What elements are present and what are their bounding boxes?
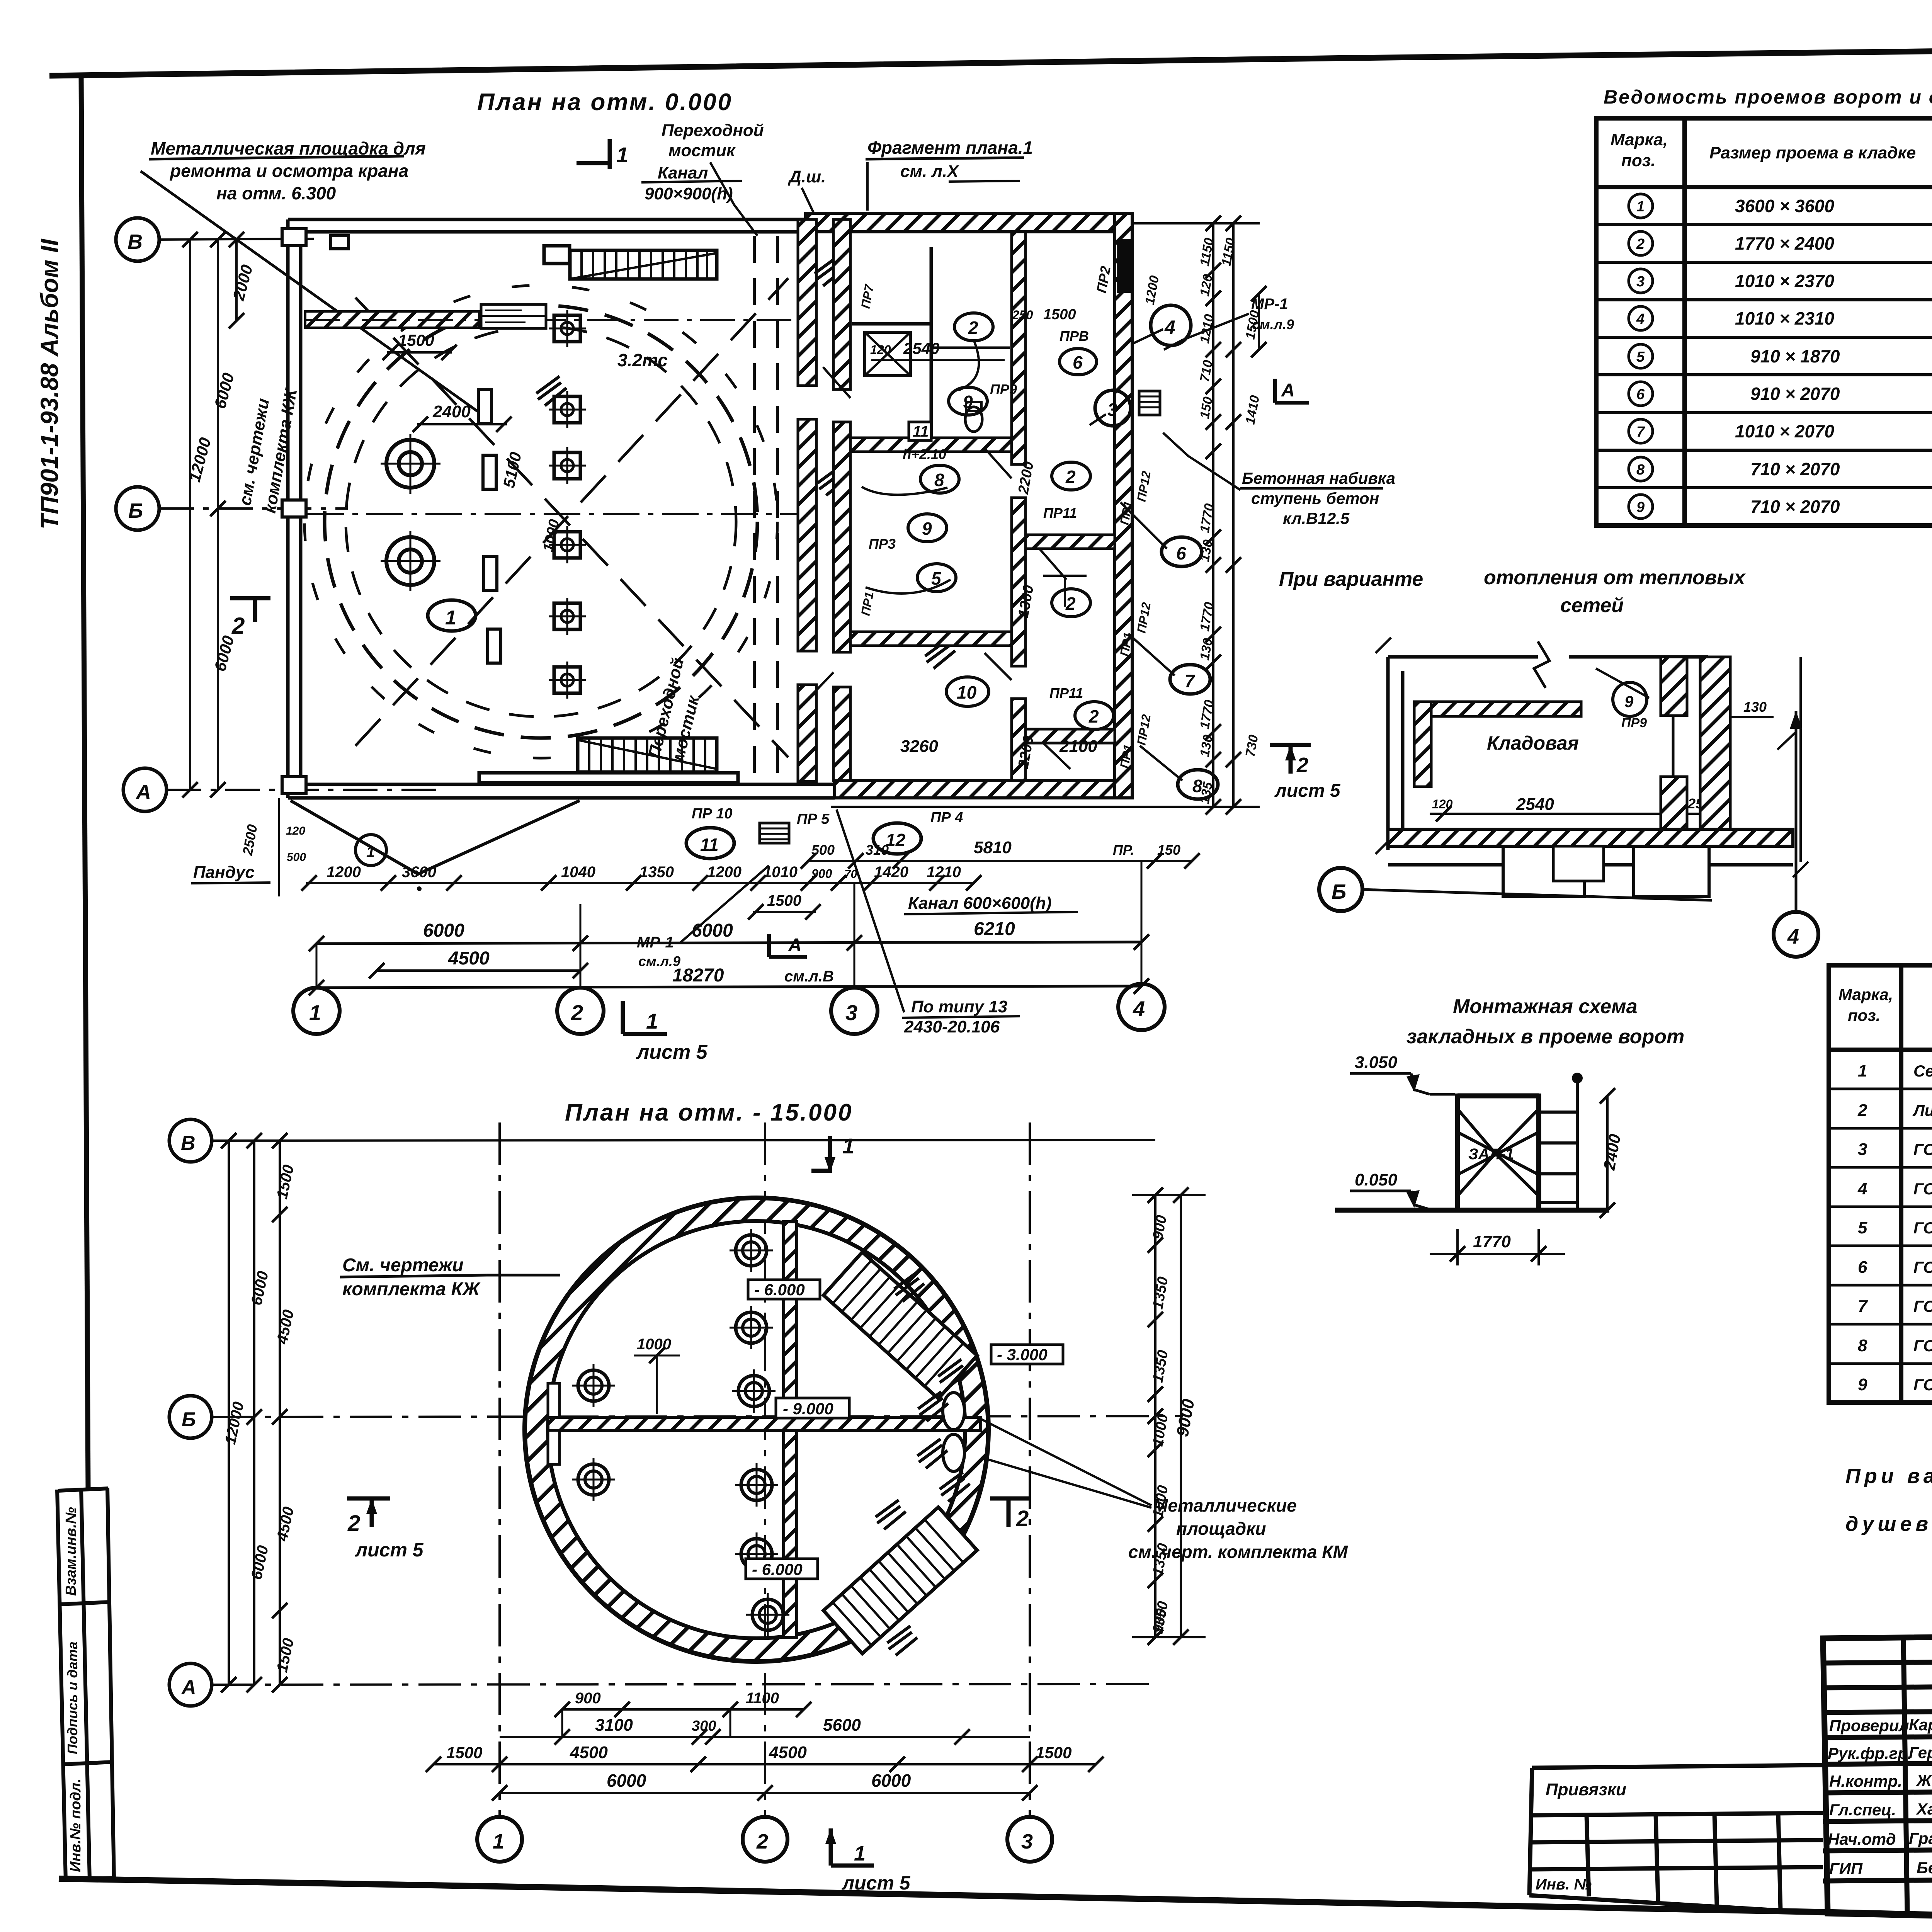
svg-text:1010 × 2310: 1010 × 2310 [1735, 308, 1835, 328]
svg-text:1: 1 [616, 143, 628, 167]
svg-text:1: 1 [445, 607, 456, 629]
svg-text:Инв.№ подл.: Инв.№ подл. [68, 1779, 84, 1872]
sheet outer top border [49, 43, 1932, 76]
svg-text:0.050: 0.050 [1355, 1170, 1398, 1189]
dim row 500 310 5810 150 [808, 860, 1192, 862]
svg-text:120: 120 [870, 343, 891, 357]
room tag oval 1 [428, 600, 476, 631]
left dimension ladder of top plan [190, 240, 236, 790]
detail inner L partition [1414, 702, 1581, 716]
leader curves to tags [862, 329, 1182, 781]
outer contour of main stamp [1823, 1630, 1932, 1931]
svg-text:Пандус: Пандус [193, 863, 255, 882]
svg-text:910 × 2070: 910 × 2070 [1750, 384, 1840, 404]
svg-text:ПР11: ПР11 [1043, 505, 1077, 521]
svg-text:- 9.000: - 9.000 [783, 1400, 833, 1418]
svg-text:150: 150 [1157, 842, 1180, 858]
svg-text:2: 2 [1857, 1101, 1867, 1120]
svg-text:Инв. №: Инв. № [1536, 1876, 1592, 1893]
svg-text:1210: 1210 [927, 864, 961, 881]
svg-text:Подпись и дата: Подпись и дата [65, 1641, 80, 1754]
svg-text:1: 1 [1858, 1061, 1867, 1080]
detail break marks right [1777, 733, 1808, 877]
svg-text:Беляев: Беляев [1917, 1859, 1932, 1877]
svg-text:Переходной: Переходной [662, 121, 764, 140]
svg-text:1010 × 2370: 1010 × 2370 [1735, 271, 1835, 291]
svg-text:130: 130 [1743, 699, 1767, 715]
svg-text:ЗАЛ-1: ЗАЛ-1 [1468, 1146, 1514, 1163]
section mark 1 list5 bottom [831, 1828, 874, 1866]
svg-text:300: 300 [692, 1718, 716, 1734]
svg-text:МР-1: МР-1 [1251, 296, 1288, 313]
svg-text:ГОСТ 6629-74*: ГОСТ 6629-74* [1913, 1297, 1932, 1315]
svg-text:См. чертежи: См. чертежи [342, 1255, 464, 1276]
svg-text:6000: 6000 [423, 920, 464, 941]
crane rail band top-left [305, 311, 479, 328]
svg-text:1420: 1420 [874, 864, 908, 881]
vertical main dividers [1903, 1638, 1907, 1913]
svg-text:5: 5 [1858, 1218, 1867, 1237]
svg-text:1770 × 2400: 1770 × 2400 [1735, 233, 1835, 253]
svg-text:ГОСТ 6629-74*: ГОСТ 6629-74* [1913, 1180, 1932, 1198]
svg-text:10: 10 [957, 682, 977, 702]
svg-text:см. черт. комплекта КМ: см. черт. комплекта КМ [1128, 1542, 1349, 1562]
svg-text:2: 2 [1065, 467, 1076, 487]
svg-text:2: 2 [756, 1830, 768, 1853]
svg-text:1500: 1500 [446, 1743, 482, 1762]
svg-text:закладных в проеме ворот: закладных в проеме ворот [1406, 1026, 1684, 1048]
axis tag B detail [1319, 868, 1362, 911]
svg-text:4500: 4500 [448, 948, 490, 969]
room tag ovals [908, 313, 1114, 730]
wells column [730, 1229, 773, 1272]
sheet bottom border [59, 1879, 1932, 1932]
svg-text:1200: 1200 [327, 864, 361, 881]
svg-text:лист 5: лист 5 [842, 1872, 911, 1894]
svg-text:1: 1 [493, 1830, 504, 1853]
axis lines [159, 239, 444, 790]
svg-text:2: 2 [1088, 706, 1099, 726]
svg-text:При варианте: При варианте [1279, 568, 1423, 590]
svg-text:см.л.9: см.л.9 [1252, 316, 1294, 332]
svg-text:ГОСТ 6629-74*: ГОСТ 6629-74* [1913, 1337, 1932, 1355]
svg-text:9: 9 [963, 392, 973, 412]
svg-text:Металлические: Металлические [1153, 1495, 1297, 1515]
lower stair flight [823, 1507, 977, 1653]
gate frame [1335, 1094, 1609, 1210]
svg-text:70: 70 [844, 868, 857, 881]
svg-text:250: 250 [1012, 308, 1033, 322]
building outer walls [288, 219, 835, 798]
svg-text:3: 3 [1858, 1140, 1867, 1159]
grate under wall [760, 823, 789, 843]
right vertical dim ladders [831, 222, 1260, 808]
svg-text:3: 3 [1021, 1830, 1033, 1853]
hatched right wall [1115, 213, 1132, 798]
svg-text:мостик: мостик [668, 141, 736, 160]
svg-text:1: 1 [366, 844, 375, 861]
svg-text:120: 120 [286, 825, 305, 837]
left stamp strip [57, 1488, 114, 1881]
upper stair flight [823, 1252, 977, 1398]
svg-text:Н.контр.: Н.контр. [1829, 1772, 1902, 1790]
svg-text:В: В [128, 230, 143, 253]
svg-text:7: 7 [1636, 424, 1645, 440]
svg-text:ГОСТ 6629-74*: ГОСТ 6629-74* [1913, 1258, 1932, 1276]
svg-text:1: 1 [646, 1009, 658, 1033]
svg-text:ПР9: ПР9 [990, 381, 1017, 397]
svg-text:поз.: поз. [1848, 1006, 1880, 1024]
svg-text:2: 2 [1016, 1506, 1029, 1531]
svg-text:ГОСТ 14624-84: ГОСТ 14624-84 [1913, 1219, 1932, 1237]
elevation boxes [746, 1280, 1063, 1579]
svg-text:2540: 2540 [1516, 795, 1554, 814]
hatch bursts [815, 257, 845, 286]
svg-text:1000: 1000 [637, 1336, 671, 1353]
big wells [386, 440, 434, 585]
svg-text:на отм. 6.300: на отм. 6.300 [216, 183, 336, 203]
svg-text:2100: 2100 [1059, 737, 1097, 756]
svg-text:2400: 2400 [432, 402, 471, 421]
svg-text:А: А [1281, 380, 1295, 401]
corridor hatched wall [798, 219, 816, 386]
svg-text:3: 3 [1636, 274, 1645, 290]
left wall stubs [548, 1383, 560, 1417]
svg-text:3.050: 3.050 [1355, 1053, 1398, 1072]
svg-text:8: 8 [1636, 462, 1645, 478]
svg-text:лист 5: лист 5 [355, 1539, 424, 1561]
axes lines bottom plan [212, 1122, 1183, 1816]
tag ovals 11 12 [686, 828, 734, 859]
gate side ladder [1539, 1078, 1577, 1210]
svg-text:А: А [181, 1676, 196, 1699]
section mark 2 right [990, 1498, 1030, 1527]
grid circle B [116, 487, 159, 530]
right dim ladder bottom plan [1132, 1194, 1206, 1638]
small grid rows top-left [1823, 1661, 1932, 1663]
svg-text:1010 × 2070: 1010 × 2070 [1735, 421, 1835, 441]
svg-text:2: 2 [1636, 236, 1645, 252]
svg-text:2540: 2540 [903, 339, 939, 357]
svg-text:лист 5: лист 5 [1274, 781, 1341, 801]
svg-text:Канал: Канал [658, 163, 708, 182]
svg-text:1770: 1770 [1473, 1232, 1511, 1251]
svg-text:6: 6 [1073, 352, 1083, 372]
svg-text:Размер проема в кладке: Размер проема в кладке [1709, 143, 1916, 162]
crane diagonals dashed [355, 278, 788, 746]
svg-text:Марка,: Марка, [1838, 985, 1893, 1003]
svg-text:Ведомость проемов ворот и: Ведомость проемов ворот и дверей [1604, 86, 1932, 108]
grid circle A [123, 768, 167, 811]
svg-text:4500: 4500 [769, 1743, 807, 1762]
vent grille right wall [1139, 391, 1160, 415]
dim 1000 inside [656, 1354, 658, 1414]
svg-text:3: 3 [845, 1000, 857, 1025]
svg-text:8: 8 [934, 470, 944, 490]
svg-text:6210: 6210 [974, 919, 1015, 939]
section mark 1 below title [811, 1136, 830, 1173]
label: perekhodnoy mostik [645, 121, 764, 203]
grid circles bottom of top plan [293, 988, 340, 1034]
svg-text:А: А [135, 781, 151, 804]
dim 2400 inside hall [417, 423, 507, 425]
svg-text:ПР3: ПР3 [869, 536, 896, 552]
svg-text:3600: 3600 [402, 864, 436, 881]
svg-text:6: 6 [1176, 543, 1186, 563]
svg-text:ПР 4: ПР 4 [930, 810, 963, 826]
small dim row under building [306, 882, 974, 884]
svg-text:ПР.: ПР. [1113, 842, 1134, 858]
svg-text:Проверил: Проверил [1829, 1716, 1909, 1735]
section mark 1 (top) [577, 139, 610, 169]
leader text: metal platform [151, 138, 426, 203]
svg-text:2430-20.106: 2430-20.106 [904, 1017, 1000, 1036]
svg-text:- 6.000: - 6.000 [752, 1560, 803, 1578]
ramp V lines [291, 801, 580, 874]
svg-text:6000: 6000 [692, 920, 733, 941]
dims in rooms [871, 359, 1005, 361]
svg-text:1100: 1100 [746, 1690, 779, 1707]
svg-text:2: 2 [968, 318, 978, 338]
svg-text:1500: 1500 [767, 892, 801, 909]
svg-text:3100: 3100 [595, 1716, 633, 1735]
svg-text:5: 5 [1636, 349, 1645, 365]
svg-text:710 × 2070: 710 × 2070 [1750, 497, 1840, 517]
svg-text:3260: 3260 [900, 737, 938, 756]
wall pilasters [282, 229, 349, 794]
svg-text:ступень бетон: ступень бетон [1251, 489, 1379, 507]
svg-text:910 × 1870: 910 × 1870 [1750, 346, 1840, 366]
leader line to platform [141, 171, 478, 412]
svg-text:4: 4 [1164, 316, 1175, 338]
vertical partition of rooms [1012, 232, 1026, 464]
big ring wall of shaft [525, 1198, 988, 1662]
bottom dims of lower plan [562, 1708, 804, 1711]
svg-text:Гл.спец.: Гл.спец. [1829, 1801, 1896, 1819]
svg-text:ремонта и осмотра крана: ремонта и осмотра крана [169, 161, 408, 181]
sheet left border [81, 76, 88, 1488]
svg-text:6: 6 [1858, 1258, 1867, 1277]
svg-text:ГОСТ 6629-74*: ГОСТ 6629-74* [1913, 1376, 1932, 1394]
svg-text:комплекта КЖ: комплекта КЖ [342, 1279, 481, 1299]
svg-text:поз.: поз. [1621, 151, 1655, 170]
grid circle V [116, 218, 159, 261]
section flag 1A [1275, 379, 1309, 403]
svg-text:Германов: Германов [1909, 1743, 1932, 1762]
svg-text:Рук.фр.гр.: Рук.фр.гр. [1828, 1744, 1912, 1762]
svg-text:Взам.инв.№: Взам.инв.№ [63, 1507, 79, 1596]
detail bottom wall [1388, 829, 1793, 846]
svg-text:2: 2 [1296, 753, 1308, 777]
svg-text:1: 1 [842, 1134, 854, 1158]
svg-text:При варианте отопления от: При варианте отопления от тепловых сетей… [1845, 1464, 1932, 1488]
svg-text:см.л.В: см.л.В [784, 968, 834, 985]
right rooms: corridor east wall [833, 219, 850, 389]
door swing diagonals [808, 367, 1070, 769]
svg-text:ГОСТ 24698-81: ГОСТ 24698-81 [1913, 1140, 1932, 1158]
svg-text:кл.В12.5: кл.В12.5 [1283, 509, 1350, 527]
svg-text:1: 1 [854, 1842, 866, 1865]
gate dim 2400 [1606, 1096, 1609, 1210]
corridor dashed lines [753, 236, 756, 779]
detail lower piers [1503, 846, 1584, 896]
svg-text:18270: 18270 [672, 965, 724, 986]
signature labels [1828, 1716, 1932, 1878]
small equipment rects [478, 389, 501, 663]
top stair [544, 246, 717, 279]
svg-text:ГИП: ГИП [1829, 1859, 1863, 1878]
svg-text:Градобоинов: Градобоинов [1909, 1829, 1932, 1847]
svg-text:ТП901-1-93.88 Альбом II: ТП901-1-93.88 Альбом II [36, 238, 63, 529]
svg-text:1500: 1500 [1036, 1743, 1071, 1762]
svg-text:ПР 5: ПР 5 [797, 811, 830, 827]
svg-text:500: 500 [287, 851, 306, 864]
svg-text:6000: 6000 [607, 1770, 646, 1791]
svg-text:900: 900 [811, 867, 832, 881]
grid circle V2 [169, 1119, 212, 1162]
detail door tag [1613, 682, 1647, 716]
svg-text:12: 12 [886, 830, 906, 850]
grid circle A2 [169, 1663, 212, 1706]
svg-text:8: 8 [1858, 1336, 1867, 1355]
svg-text:ПР11: ПР11 [1049, 685, 1083, 701]
gate dim 1770 [1456, 1229, 1459, 1265]
svg-text:900: 900 [575, 1690, 601, 1707]
svg-text:ПР9: ПР9 [1621, 716, 1647, 730]
svg-text:9: 9 [922, 519, 932, 539]
svg-text:Фрагмент плана.1: Фрагмент плана.1 [867, 138, 1033, 158]
svg-text:Бетонная набивка: Бетонная набивка [1242, 469, 1395, 487]
svg-text:1: 1 [1636, 199, 1645, 215]
svg-text:900×900(h): 900×900(h) [645, 184, 733, 203]
left dim ladder bottom plan [229, 1141, 280, 1685]
signature rows [1823, 1735, 1932, 1738]
svg-text:площадки: площадки [1176, 1519, 1266, 1539]
svg-text:2: 2 [231, 613, 245, 639]
grid circle B2 [169, 1396, 212, 1438]
svg-text:см. л.Х: см. л.Х [900, 162, 959, 181]
hatched bottom wall right part [835, 781, 1115, 798]
svg-text:3.2тс: 3.2тс [617, 350, 668, 370]
svg-text:лист 5: лист 5 [636, 1041, 708, 1063]
dim row 18270 [316, 986, 1141, 988]
privyazki block left of stamp [1529, 1765, 1828, 1913]
vertical wall [784, 1222, 797, 1417]
svg-text:4: 4 [1636, 311, 1645, 327]
bottom stair [479, 738, 738, 783]
svg-text:Марка,: Марка, [1611, 130, 1668, 149]
svg-text:1040: 1040 [561, 864, 595, 881]
svg-text:Д.ш.: Д.ш. [787, 167, 826, 186]
circled tags right side [1151, 305, 1191, 345]
svg-text:Б: Б [182, 1408, 196, 1431]
svg-text:отопления от тепловых: отопления от тепловых [1484, 566, 1746, 589]
svg-text:ПР 10: ПР 10 [692, 806, 733, 822]
section mark 2 list5 right of top plan [1270, 745, 1311, 774]
section A mark bottom [769, 934, 807, 957]
section mark 2 list5 left [347, 1498, 390, 1527]
svg-text:7: 7 [1185, 671, 1196, 691]
landing platforms right [943, 1393, 964, 1430]
svg-text:9: 9 [1858, 1375, 1867, 1394]
svg-text:План на отм. 0.000: План на отм. 0.000 [477, 89, 733, 116]
svg-text:душевой устраивается кладова: душевой устраивается кладовая. [1845, 1512, 1932, 1536]
svg-text:Б: Б [1332, 880, 1346, 903]
svg-text:Б: Б [128, 499, 143, 522]
svg-text:Ханин: Ханин [1916, 1800, 1932, 1818]
hatched top wall right part [806, 213, 1132, 232]
boxed tag 11 [909, 422, 931, 440]
svg-text:1200: 1200 [707, 864, 742, 881]
section mark 1 list 5 [623, 1001, 667, 1034]
svg-text:11: 11 [700, 835, 719, 855]
svg-text:500: 500 [811, 842, 835, 858]
hatch bursts in stairs [894, 1272, 924, 1301]
svg-text:1500: 1500 [1043, 306, 1076, 323]
svg-text:4500: 4500 [570, 1743, 608, 1762]
svg-text:1: 1 [309, 1000, 321, 1025]
svg-text:4: 4 [1857, 1179, 1867, 1198]
svg-text:Карельских: Карельских [1909, 1716, 1932, 1734]
shower box with X [865, 332, 910, 376]
door PR2 on right wall [1117, 239, 1131, 293]
main dim row 6000 6000 6210 [316, 942, 1141, 944]
svg-text:План на отм. - 15.000: План на отм. - 15.000 [565, 1099, 853, 1126]
svg-text:3: 3 [1107, 400, 1117, 420]
svg-text:А: А [788, 935, 802, 956]
horizontal wall along B axis [548, 1417, 981, 1430]
svg-text:2: 2 [1065, 594, 1076, 614]
svg-text:Кладовая: Кладовая [1487, 732, 1579, 754]
svg-text:ПРВ: ПРВ [1060, 328, 1089, 344]
svg-text:9: 9 [1636, 499, 1645, 515]
grid circles bottom of lower plan [477, 1817, 522, 1862]
small door labels right column [858, 283, 1153, 770]
wc fixture [965, 407, 982, 432]
svg-text:Жило: Жило [1916, 1771, 1932, 1789]
small cabinet box with label [481, 304, 546, 328]
axis tag 4 detail [1774, 912, 1818, 957]
dim row 4500 [377, 969, 580, 972]
sanuzel thin walls [930, 247, 933, 437]
svg-text:По типу 13: По типу 13 [911, 997, 1007, 1016]
section mark 2 left [230, 598, 270, 622]
svg-text:Нач.отд: Нач.отд [1828, 1830, 1896, 1848]
svg-text:Монтажная схема: Монтажная схема [1453, 995, 1638, 1018]
svg-text:3600 × 3600: 3600 × 3600 [1735, 196, 1835, 216]
svg-text:11: 11 [913, 423, 929, 440]
dim 1500 inside hall [387, 351, 452, 354]
svg-text:Листы 10,11,12,13: Листы 10,11,12,13 [1912, 1101, 1932, 1119]
svg-text:1500: 1500 [398, 331, 434, 349]
svg-text:- 6.000: - 6.000 [754, 1281, 805, 1299]
detail top wall [1376, 638, 1708, 854]
svg-text:6000: 6000 [871, 1770, 911, 1791]
svg-text:2: 2 [347, 1511, 360, 1536]
svg-text:сетей: сетей [1560, 594, 1624, 617]
svg-text:7: 7 [1858, 1297, 1868, 1316]
svg-text:5600: 5600 [823, 1716, 861, 1735]
svg-text:710 × 2070: 710 × 2070 [1750, 459, 1840, 479]
svg-text:9: 9 [1624, 692, 1634, 711]
svg-text:В: В [181, 1132, 196, 1155]
svg-text:4: 4 [1787, 925, 1799, 948]
dim 1500 [753, 911, 816, 913]
svg-text:Канал 600×600(h): Канал 600×600(h) [908, 894, 1051, 913]
svg-text:6: 6 [1636, 386, 1645, 403]
svg-text:- 3.000: - 3.000 [997, 1345, 1048, 1364]
crane axis dash-dot [307, 513, 804, 515]
